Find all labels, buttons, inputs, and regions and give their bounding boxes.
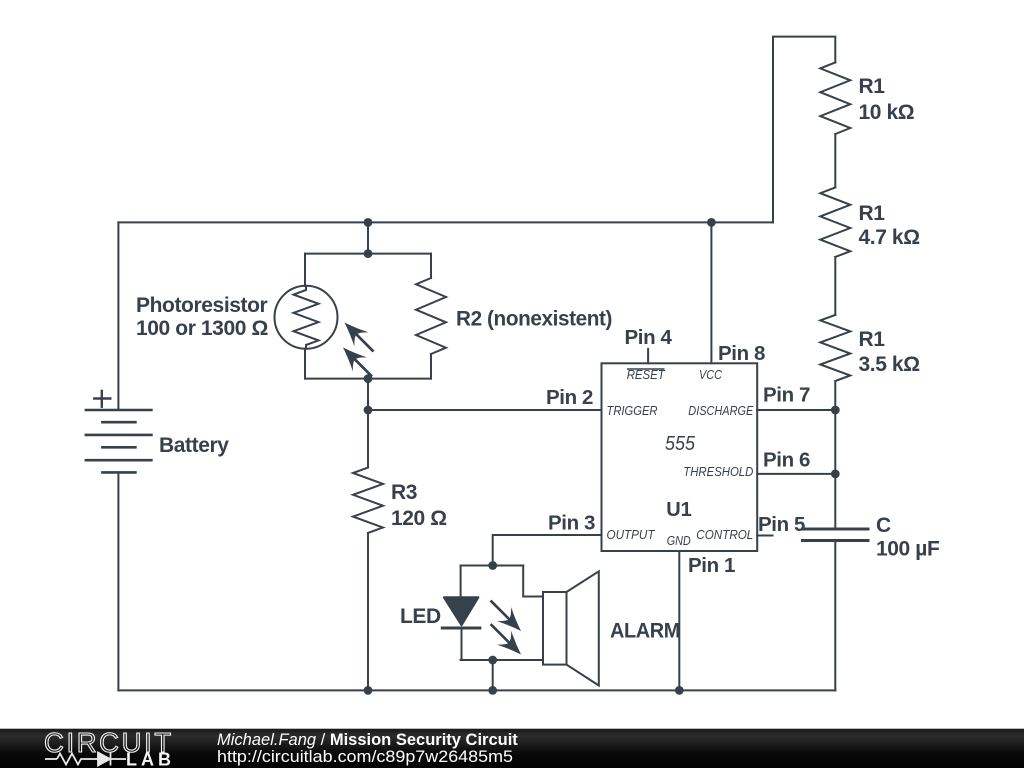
resistor R1 4.7 k — [820, 187, 850, 257]
svg-text:100 or 1300 Ω: 100 or 1300 Ω — [136, 317, 268, 340]
wire R3 bottom lead — [367, 533, 369, 690]
svg-text:10 kΩ: 10 kΩ — [859, 101, 915, 124]
node pin7 — [831, 406, 840, 415]
svg-text:CONTROL: CONTROL — [696, 527, 753, 542]
op-amp U1 555 box — [602, 363, 758, 551]
svg-text:Michael.Fang / Mission Securit: Michael.Fang / Mission Security Circuit — [217, 731, 518, 749]
wire R2 top lead — [430, 254, 432, 278]
wire LED loop top — [461, 565, 524, 567]
svg-text:VCC: VCC — [699, 367, 723, 382]
node bottom rail alarm — [488, 686, 497, 695]
node output tee — [488, 561, 497, 570]
wire speaker top feed — [523, 566, 543, 597]
resistor R2 (nonexistent) — [416, 278, 446, 354]
node bottom rail r3 — [364, 686, 373, 695]
node dots — [364, 218, 840, 695]
svg-text:Pin 4: Pin 4 — [625, 326, 673, 349]
wire top rail — [118, 221, 773, 223]
svg-text:Pin 6: Pin 6 — [763, 448, 810, 471]
svg-text:R3: R3 — [391, 481, 417, 504]
wire photoresistor top lead — [304, 254, 306, 286]
node bottom rail pin1 — [675, 686, 684, 695]
svg-text:4.7 kΩ: 4.7 kΩ — [859, 226, 920, 249]
LED D1 triangle — [444, 597, 479, 625]
svg-text:TRIGGER: TRIGGER — [607, 403, 658, 418]
svg-text:THRESHOLD: THRESHOLD — [683, 464, 753, 479]
node led loop bottom — [488, 656, 497, 665]
resistor R1 3.5 k — [820, 315, 850, 381]
svg-text:Photoresistor: Photoresistor — [136, 294, 268, 317]
wire between R1 4.7k and R1 3.5k — [834, 257, 836, 315]
wire Pin 5 control stub — [757, 535, 772, 537]
wire Pin 6 threshold — [757, 473, 835, 475]
speaker ALARM body — [543, 592, 567, 665]
svg-text:R1: R1 — [859, 202, 886, 225]
battery plates — [86, 410, 151, 472]
wire photoresistor bottom lead — [304, 349, 306, 379]
capacitor C plates — [803, 529, 869, 541]
wire LED loop bottom — [461, 659, 543, 661]
photoresistor body circle — [275, 286, 338, 349]
svg-text:555: 555 — [665, 433, 696, 455]
svg-text:100 µF: 100 µF — [876, 538, 940, 561]
node box top — [364, 249, 373, 258]
node pin6 — [831, 470, 840, 479]
photoresistor light arrow 2 — [336, 340, 379, 383]
svg-text:R1: R1 — [859, 328, 886, 351]
wire Pin 8 vcc — [710, 222, 712, 363]
node trigger tee — [364, 406, 373, 415]
wire node between box and trigger tee — [367, 379, 369, 410]
svg-text:Pin 2: Pin 2 — [546, 386, 593, 409]
svg-text:Pin 8: Pin 8 — [718, 342, 765, 365]
LED light arrow 2 — [484, 617, 529, 662]
resistor R3 — [353, 468, 383, 534]
wire Pin 7 discharge — [757, 409, 835, 411]
wire R3 top lead — [367, 410, 369, 468]
svg-text:120 Ω: 120 Ω — [391, 507, 447, 530]
node top rail / pin8 — [707, 218, 716, 227]
node top rail / photoresistor branch — [364, 218, 373, 227]
photoresistor inner zigzag — [294, 286, 319, 349]
resistor R1 10 k — [820, 62, 850, 134]
svg-text:DISCHARGE: DISCHARGE — [688, 403, 753, 418]
wire Pin 4 stub — [647, 349, 649, 363]
wire R1 chain to Pin7/Pin6 node — [834, 381, 836, 529]
photoresistor light arrow 1 — [337, 315, 380, 358]
svg-text:LED: LED — [400, 605, 441, 628]
wire bottom rail — [118, 689, 835, 691]
wire between R1 10k and R1 4.7k — [834, 134, 836, 187]
speaker ALARM horn — [567, 571, 599, 685]
svg-text:R1: R1 — [859, 75, 886, 98]
svg-text:Pin 5: Pin 5 — [758, 513, 805, 536]
LED D1 cathode bar — [442, 627, 480, 630]
wire LED anode lead — [460, 566, 462, 598]
wire capacitor bottom lead — [834, 541, 836, 691]
svg-text:Pin 3: Pin 3 — [548, 512, 595, 535]
wire Pin 2 trigger — [368, 409, 602, 411]
svg-text:R2 (nonexistent): R2 (nonexistent) — [456, 308, 612, 331]
wire top-right riser to R1 chain — [773, 37, 835, 223]
svg-text:3.5 kΩ: 3.5 kΩ — [859, 353, 920, 376]
wire photoresistor branch drop — [367, 222, 369, 253]
wire LED cathode lead — [461, 628, 463, 660]
svg-text:ALARM: ALARM — [610, 620, 680, 643]
wire parallel box top — [305, 253, 431, 255]
wire battery negative lead — [117, 472, 119, 690]
svg-text:Pin 1: Pin 1 — [688, 554, 735, 577]
wire Pin 1 gnd — [678, 551, 680, 690]
LED light arrow 1 — [484, 594, 529, 639]
wire parallel box bottom — [305, 378, 431, 380]
svg-text:C: C — [876, 514, 891, 537]
wire Pin 3 output — [493, 535, 602, 566]
battery plus sign — [94, 391, 110, 407]
logo schematic glyph — [45, 753, 126, 766]
node box bottom — [364, 374, 373, 383]
svg-text:OUTPUT: OUTPUT — [607, 527, 656, 542]
svg-text:Battery: Battery — [159, 434, 229, 457]
svg-text:http://circuitlab.com/c89p7w26: http://circuitlab.com/c89p7w26485m5 — [217, 748, 513, 766]
wire battery positive lead — [117, 222, 119, 410]
svg-text:Pin 7: Pin 7 — [763, 384, 810, 407]
svg-text:GND: GND — [667, 533, 691, 548]
svg-text:LAB: LAB — [126, 750, 175, 769]
wire R2 bottom lead — [430, 354, 432, 379]
wire alarm node drop — [492, 660, 494, 690]
svg-text:U1: U1 — [666, 499, 692, 521]
